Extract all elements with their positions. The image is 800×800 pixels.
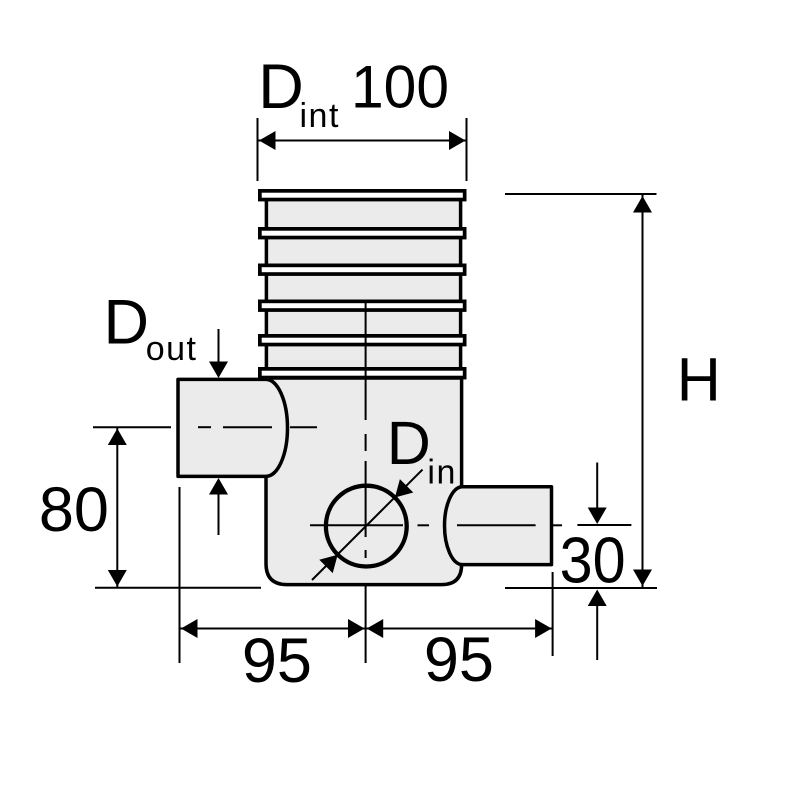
rib 4 (260, 301, 465, 310)
30 up arrow (588, 590, 607, 607)
left outlet saddle arc (266, 379, 287, 476)
H top arrow (633, 196, 652, 213)
svg-text:D: D (104, 287, 150, 357)
svg-text:95: 95 (242, 626, 312, 696)
H extension line top (505, 193, 657, 195)
Dout upper arrow line (218, 329, 220, 363)
outlet centerline (93, 426, 317, 428)
95 left extension line (179, 487, 181, 663)
Dint extension line right (466, 118, 468, 181)
Dout lower arrow line (218, 494, 220, 535)
Dint extension line left (257, 118, 259, 181)
30 down arrow line (596, 463, 598, 509)
95 right dim right arrow (535, 619, 552, 638)
svg-text:out: out (146, 330, 198, 368)
bottom extension line shared by H and 30 (505, 587, 657, 589)
Din lower arrow (319, 555, 337, 573)
Din upper arrow (395, 479, 413, 497)
svg-text:H: H (677, 346, 721, 414)
rib 1 (260, 191, 465, 200)
rib 3 (260, 265, 465, 274)
rib 6 (260, 369, 465, 378)
30 down arrow (588, 508, 607, 525)
svg-text:100: 100 (351, 54, 449, 121)
rib 2 (260, 229, 465, 238)
95 left dim left arrow (181, 619, 198, 638)
Dout lower arrow (209, 478, 228, 495)
Dint right arrow (449, 131, 466, 150)
vertical centerline (365, 303, 367, 663)
80 dimension line (116, 428, 118, 587)
H bottom arrow (633, 570, 652, 587)
30 upper reference line (577, 524, 631, 526)
right inlet saddle arc (445, 487, 462, 565)
Dint left arrow (259, 131, 276, 150)
svg-text:in: in (427, 454, 456, 492)
svg-text:30: 30 (560, 523, 626, 596)
80 top arrow (108, 429, 127, 446)
Din diagonal dimension line (312, 470, 423, 580)
svg-text:80: 80 (39, 475, 109, 545)
95 left dim right arrow (348, 619, 365, 638)
Dint dimension line (258, 140, 467, 142)
rib 5 (260, 336, 465, 345)
80 bottom extension line (95, 587, 261, 589)
95 right extension line (552, 572, 554, 656)
95 left dimension line (180, 628, 366, 630)
svg-text:D: D (387, 409, 431, 477)
95 right dim left arrow (367, 619, 384, 638)
80 bottom arrow (108, 570, 127, 587)
riser pipe body (266, 195, 460, 378)
30 up arrow line (596, 606, 598, 660)
chamber body outline (178, 376, 552, 585)
inlet pipe centerline (310, 524, 562, 526)
Dout upper arrow (209, 362, 228, 379)
svg-text:int: int (300, 97, 340, 135)
H dimension line (642, 195, 644, 587)
svg-text:D: D (258, 52, 304, 122)
svg-text:95: 95 (424, 625, 494, 695)
95 right dimension line (366, 628, 553, 630)
inlet circle Din (326, 486, 407, 567)
